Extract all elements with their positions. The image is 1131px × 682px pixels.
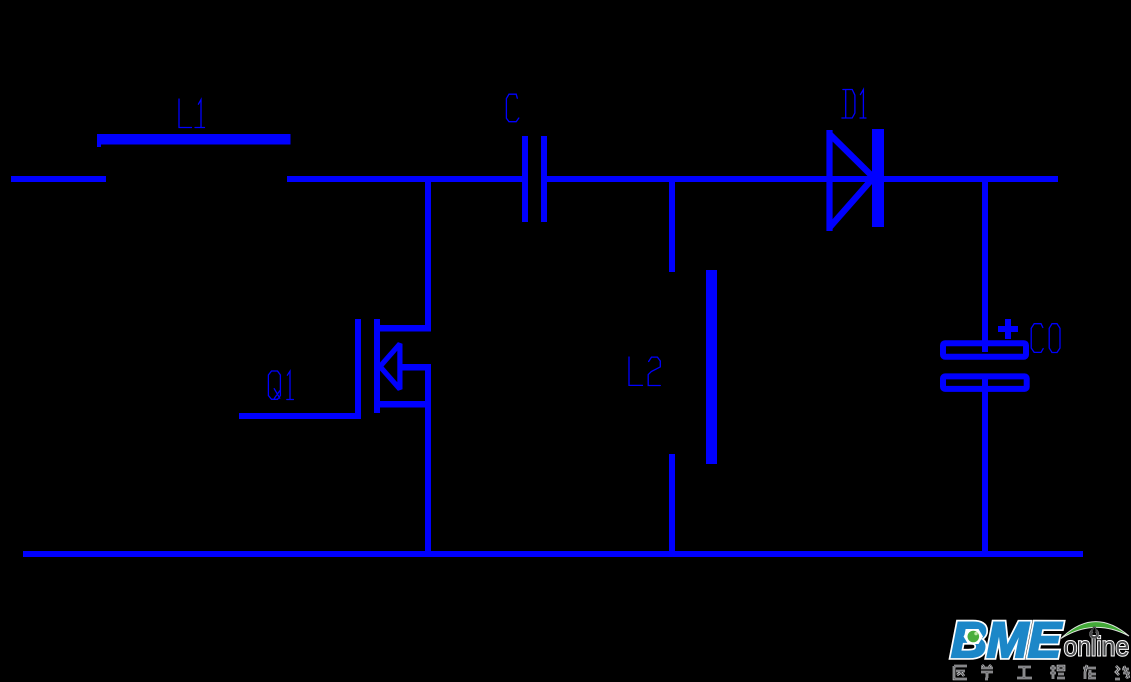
wire: L2 top vertical [669, 182, 675, 272]
inductor L2 (bar) [706, 270, 717, 464]
capacitor C left plate [522, 136, 528, 222]
logo hexagon in B [964, 629, 984, 644]
wire: bottom rail [23, 551, 1083, 557]
labels: CAD stroke font [179, 90, 1060, 400]
wire: L2 bottom vertical [669, 454, 675, 554]
wire: C0 top vertical [982, 182, 988, 352]
wire: left input stub [11, 176, 106, 182]
logo green ball [968, 631, 980, 643]
inductor L1 (bar) [97, 134, 291, 145]
capacitor C right plate [541, 136, 547, 222]
Q1 source stub [380, 401, 431, 408]
transistor Q1 body-diode arrow [380, 344, 400, 389]
BME online logo [951, 612, 1129, 668]
Q1 drain stub [380, 325, 431, 332]
label C0 [1031, 324, 1060, 353]
diode D1 top slant [830, 134, 874, 178]
wire: Q1 gate lead [239, 413, 361, 419]
capacitor C0 bottom plate [943, 376, 1027, 389]
L1 bar left nub [97, 144, 101, 147]
label L1 [179, 99, 205, 128]
transistor Q1 channel bar [374, 319, 380, 413]
capacitor C0 top plate [943, 343, 1026, 357]
logo green arc [1061, 622, 1129, 639]
wire: C0 bottom vertical [982, 374, 988, 557]
transistor Q1 gate bar [355, 319, 361, 413]
diode D1 triangle left bar [826, 130, 832, 231]
char 在 [1083, 665, 1096, 679]
wire: top rail left of capacitor C [287, 176, 522, 182]
wire: Q1 source vertical [425, 364, 431, 551]
Chinese caption 医学工程在线 (white under-stroke) [954, 665, 1130, 679]
char 学 [981, 665, 993, 679]
label Q1 [268, 371, 293, 400]
wire: Q1 drain vertical [425, 182, 431, 331]
logo wrench head on l [1091, 631, 1098, 638]
C0 plus sign [998, 319, 1018, 339]
char 线 [1115, 666, 1130, 679]
char 工 [1017, 667, 1032, 678]
diode D1 bottom slant [830, 178, 874, 228]
label D1 [842, 90, 866, 119]
wire: top rail right of capacitor C [547, 176, 1058, 182]
diode D1 cathode bar [872, 129, 884, 227]
Q1 body stub [400, 364, 431, 371]
char 程 [1050, 665, 1065, 679]
label L2 [629, 357, 660, 386]
label C [506, 94, 518, 122]
char 医 [954, 666, 967, 679]
